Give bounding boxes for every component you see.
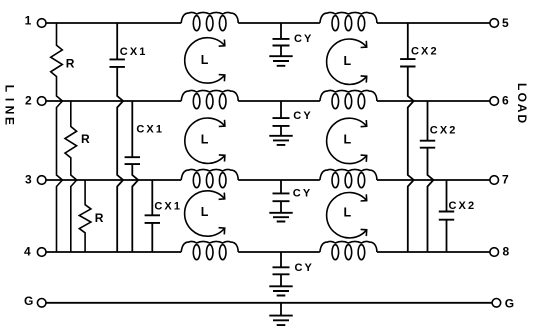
terminal G load-side bbox=[492, 299, 501, 308]
resistor R (phase 2 bleed, line 2 to line 4) bbox=[65, 101, 77, 252]
svg-text:CY: CY bbox=[293, 110, 312, 122]
ground symbol under CY line 4 bbox=[269, 286, 292, 295]
choke coupling arrow L stage 2 lines 2-3 bbox=[327, 118, 367, 163]
svg-text:I: I bbox=[2, 98, 16, 101]
svg-text:CX1: CX1 bbox=[154, 201, 182, 213]
terminal 6 bbox=[490, 97, 499, 106]
ground symbol under CY line 3 bbox=[269, 213, 292, 222]
terminal G line-side bbox=[37, 299, 46, 308]
svg-text:R: R bbox=[95, 211, 104, 225]
capacitor CY (line 3 to ground) bbox=[280, 180, 282, 193]
svg-text:1: 1 bbox=[25, 14, 32, 28]
svg-text:R: R bbox=[66, 57, 75, 71]
svg-text:CX1: CX1 bbox=[136, 124, 164, 136]
inductor winding L stage 1 line 3 bbox=[181, 169, 238, 180]
capacitor CX1 (line 2 to line 4) bbox=[131, 101, 133, 157]
svg-text:CX2: CX2 bbox=[449, 200, 477, 212]
inductor winding L stage 2 line 2 bbox=[320, 90, 377, 101]
svg-text:CX2: CX2 bbox=[430, 124, 458, 136]
wire line3 left segment bbox=[46, 179, 181, 181]
terminal 7 bbox=[490, 176, 499, 185]
svg-text:A: A bbox=[515, 104, 529, 113]
svg-text:E: E bbox=[2, 117, 16, 125]
svg-text:7: 7 bbox=[502, 172, 509, 186]
svg-text:CX2: CX2 bbox=[411, 46, 439, 58]
terminal 5 bbox=[490, 19, 499, 28]
svg-text:CY: CY bbox=[294, 33, 313, 45]
wire line4 right segment bbox=[377, 251, 490, 253]
svg-text:6: 6 bbox=[502, 93, 509, 107]
capacitor CX2 (line 3 to line 4) bbox=[446, 180, 448, 212]
svg-text:8: 8 bbox=[503, 245, 510, 259]
svg-text:L: L bbox=[344, 133, 352, 147]
inductor winding L stage 1 line 1 bbox=[181, 12, 238, 23]
terminal 2 bbox=[37, 97, 46, 106]
resistor R (phase 1 bleed, line 1 to line 4) bbox=[51, 23, 63, 252]
wire line3 right segment bbox=[377, 179, 490, 181]
wire line2 left segment bbox=[46, 100, 181, 102]
choke coupling arrow L stage 2 lines 1-2 bbox=[327, 39, 367, 84]
wire line1 right segment bbox=[377, 22, 490, 24]
terminal 3 bbox=[37, 176, 46, 185]
inductor winding L stage 2 line 4 bbox=[320, 241, 377, 252]
svg-text:L: L bbox=[344, 206, 352, 220]
choke coupling arrow L stage 1 lines 3-4 bbox=[185, 191, 225, 236]
capacitor CX1 (line 3 to line 4) bbox=[151, 180, 153, 215]
ground symbol under CY line 2 bbox=[269, 136, 292, 145]
svg-text:4: 4 bbox=[24, 245, 31, 259]
svg-text:R: R bbox=[81, 132, 90, 146]
svg-text:D: D bbox=[515, 115, 529, 124]
wire line1 left segment bbox=[46, 22, 181, 24]
wire ground line G-G bbox=[46, 302, 492, 304]
choke coupling arrow L stage 1 lines 2-3 bbox=[185, 118, 225, 163]
capacitor CX2 (line 1 to line 4) bbox=[407, 23, 409, 59]
inductor winding L stage 2 line 1 bbox=[320, 12, 377, 23]
capacitor CX1 (line 1 to line 4) bbox=[116, 23, 118, 59]
resistor R (phase 3 bleed, line 3 to line 4) bbox=[79, 180, 91, 252]
svg-text:5: 5 bbox=[502, 16, 509, 30]
svg-text:CY: CY bbox=[293, 188, 312, 200]
svg-text:L: L bbox=[201, 205, 209, 219]
capacitor CY (line 4 to ground) bbox=[280, 252, 282, 267]
wire line4 middle segment bbox=[238, 251, 320, 253]
svg-text:N: N bbox=[2, 106, 16, 115]
inductor winding L stage 1 line 4 bbox=[181, 241, 238, 252]
svg-text:L: L bbox=[515, 83, 529, 90]
wire line4 left segment bbox=[46, 251, 181, 253]
svg-text:G: G bbox=[505, 296, 514, 310]
svg-text:3: 3 bbox=[25, 172, 32, 186]
wire line1 middle segment bbox=[238, 22, 320, 24]
svg-text:L: L bbox=[2, 85, 16, 92]
wire line2 middle segment bbox=[238, 100, 320, 102]
svg-text:L: L bbox=[344, 54, 352, 68]
svg-text:G: G bbox=[24, 294, 33, 308]
capacitor CY (line 1 to ground) bbox=[280, 23, 282, 39]
capacitor CY (line 2 to ground) bbox=[280, 101, 282, 118]
choke coupling arrow L stage 1 lines 1-2 bbox=[185, 38, 225, 83]
terminal 4 bbox=[37, 248, 46, 257]
svg-text:L: L bbox=[201, 53, 209, 67]
wire line3 middle segment bbox=[238, 179, 320, 181]
inductor winding L stage 1 line 2 bbox=[181, 90, 238, 101]
svg-text:CX1: CX1 bbox=[120, 46, 148, 58]
terminal 1 bbox=[37, 19, 46, 28]
svg-text:L: L bbox=[201, 133, 209, 147]
svg-text:O: O bbox=[515, 93, 529, 102]
wire line2 right segment bbox=[377, 100, 490, 102]
ground symbol on ground line bbox=[280, 303, 282, 316]
capacitor CX2 (line 2 to line 4) bbox=[427, 101, 429, 141]
inductor winding L stage 2 line 3 bbox=[320, 169, 377, 180]
svg-text:CY: CY bbox=[295, 262, 314, 274]
ground symbol under CY line 1 bbox=[269, 56, 292, 66]
choke coupling arrow L stage 2 lines 3-4 bbox=[327, 193, 367, 238]
terminal 8 bbox=[490, 248, 499, 257]
svg-text:2: 2 bbox=[25, 93, 32, 107]
